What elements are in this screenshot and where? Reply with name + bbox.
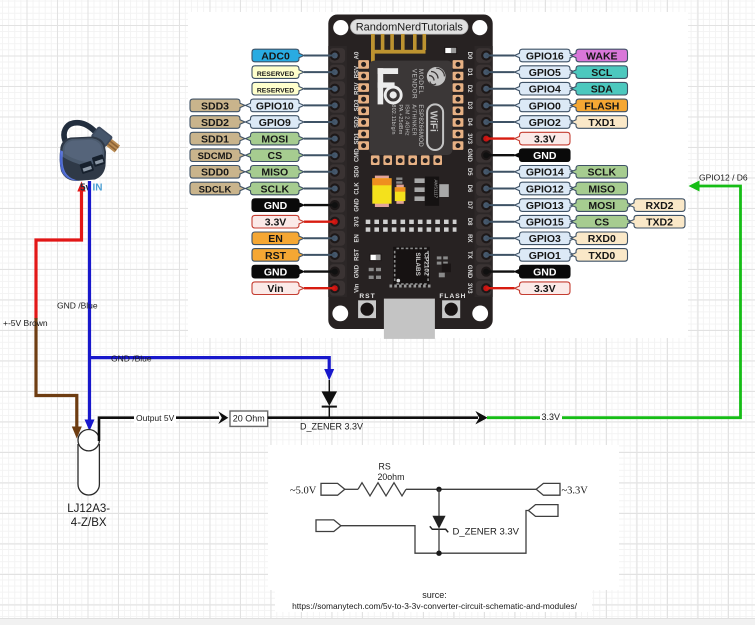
voltage regulator U2 AMS1117 bbox=[415, 178, 449, 201]
arrowhead black into resistor bbox=[218, 411, 228, 424]
svg-text:RS: RS bbox=[379, 462, 391, 472]
svg-text:GPIO4: GPIO4 bbox=[529, 84, 561, 96]
svg-text:IN: IN bbox=[93, 183, 103, 194]
pin label SDD1 bbox=[190, 132, 245, 145]
left header pin row 13 bbox=[330, 248, 345, 263]
blue accent band bbox=[60, 150, 80, 181]
svg-text:+-5V Brown: +-5V Brown bbox=[3, 318, 48, 328]
wire pin row 3 left to board bbox=[304, 88, 335, 90]
svg-text:3V3: 3V3 bbox=[354, 216, 360, 227]
pin label GPIO3 bbox=[515, 232, 576, 245]
pin label Vin bbox=[252, 282, 304, 295]
usb ports bbox=[79, 161, 94, 174]
small pads right of CP2102 bbox=[437, 256, 442, 259]
pin label CS bbox=[571, 215, 633, 228]
mounting hole top-right bbox=[472, 20, 487, 35]
left header pin row 5 bbox=[330, 115, 345, 130]
svg-text:802.11b/g/n: 802.11b/g/n bbox=[390, 104, 396, 134]
svg-text:GPIO15: GPIO15 bbox=[526, 217, 564, 229]
right header pin row 4 bbox=[476, 98, 491, 113]
svg-text:SDD0: SDD0 bbox=[201, 167, 229, 179]
left header pin row 1 bbox=[330, 48, 345, 63]
svg-text:SCLK: SCLK bbox=[261, 183, 290, 195]
mounting hole bottom-right bbox=[472, 306, 488, 322]
pin label MISO bbox=[571, 182, 628, 195]
svg-text:RST: RST bbox=[265, 250, 287, 262]
svg-text:3V3: 3V3 bbox=[466, 283, 472, 294]
pin label SDD2 bbox=[190, 116, 245, 129]
pin label GPIO16 bbox=[515, 49, 576, 62]
small transistor chip bbox=[442, 264, 451, 273]
pin label GPIO2 bbox=[515, 116, 576, 129]
wire pin row 7 left to board bbox=[304, 154, 335, 156]
pin label GPIO0 bbox=[515, 99, 576, 112]
svg-text:surce:: surce: bbox=[422, 590, 447, 600]
NodeMCU board U1 PCB body bbox=[328, 15, 492, 330]
pin label GND bbox=[252, 199, 304, 212]
pin label RXD0 bbox=[571, 232, 628, 245]
svg-text:D6: D6 bbox=[466, 185, 472, 193]
mounting hole bottom-left bbox=[332, 306, 348, 322]
svg-text:20ohm: 20ohm bbox=[378, 472, 405, 482]
right header pin row 6 bbox=[476, 131, 491, 146]
wire pin row 11 left to board bbox=[304, 220, 335, 222]
junction node top bbox=[436, 487, 441, 492]
pin label SDD3 bbox=[190, 99, 245, 112]
arrowhead black at 3.3V node bbox=[475, 411, 487, 424]
svg-text:ADC0: ADC0 bbox=[261, 50, 290, 62]
svg-text:RST: RST bbox=[354, 249, 360, 261]
right header pin row 11 bbox=[476, 214, 491, 229]
right header pin row 1 bbox=[476, 48, 491, 63]
module castellated pads left column bbox=[358, 60, 463, 165]
pin label GPIO9 bbox=[246, 116, 305, 129]
small pads below LED bbox=[369, 256, 448, 279]
Ai-Thinker swirl logo bbox=[427, 67, 446, 86]
svg-text:Vin: Vin bbox=[354, 283, 360, 293]
svg-text:SDD1: SDD1 bbox=[201, 134, 229, 146]
svg-text:GPIO2: GPIO2 bbox=[529, 117, 561, 129]
left header pin row 10 bbox=[330, 198, 345, 213]
arrowhead blue into sensor bbox=[85, 420, 95, 432]
svg-text:GND: GND bbox=[264, 200, 288, 212]
pin label SCLK bbox=[246, 182, 305, 195]
svg-text:SDCLK: SDCLK bbox=[199, 184, 232, 195]
svg-text:D_ZENER 3.3V: D_ZENER 3.3V bbox=[300, 422, 363, 432]
svg-text:EN: EN bbox=[354, 234, 360, 242]
pin label RESERVED bbox=[252, 66, 304, 79]
svg-text:GND: GND bbox=[466, 265, 472, 279]
svg-text:MISO: MISO bbox=[588, 183, 615, 195]
right header pin row 9 bbox=[476, 181, 491, 196]
svg-text:PA +25dBm: PA +25dBm bbox=[397, 104, 403, 134]
wire board to pin row 4 right bbox=[486, 104, 514, 106]
pin label TXD0 bbox=[571, 249, 628, 262]
wire pin row 1 left to board bbox=[304, 55, 335, 57]
pin label MISO bbox=[246, 166, 305, 179]
wire board to pin row 10 right bbox=[486, 204, 514, 206]
right header pin row 3 bbox=[476, 81, 491, 96]
svg-text:GPIO14: GPIO14 bbox=[526, 167, 564, 179]
wire board to pin row 5 right bbox=[486, 121, 514, 123]
svg-text:SCL: SCL bbox=[591, 67, 613, 79]
pin label ADC0 bbox=[252, 49, 304, 62]
output connector ~3.3V bbox=[536, 483, 560, 495]
right header pin row 5 bbox=[476, 115, 491, 130]
wire board to pin row 8 right bbox=[486, 171, 514, 173]
svg-text:GPIO10: GPIO10 bbox=[256, 100, 294, 112]
svg-text:CS: CS bbox=[268, 150, 283, 162]
bottom scrollbar band bbox=[0, 618, 755, 625]
white box behind source url bbox=[275, 586, 592, 612]
svg-text:TXD2: TXD2 bbox=[646, 217, 673, 229]
junction node bottom bbox=[436, 551, 441, 556]
solder pad row 1 bbox=[366, 220, 457, 224]
pin label GPIO15 bbox=[515, 215, 576, 228]
label Output 5V bbox=[134, 412, 176, 423]
pin label GPIO5 bbox=[515, 66, 576, 79]
pin label GPIO10 bbox=[246, 99, 305, 112]
wire pin row 4 left to board bbox=[304, 104, 335, 106]
svg-text:TXD0: TXD0 bbox=[588, 250, 615, 262]
svg-text:FLASH: FLASH bbox=[584, 100, 619, 112]
svg-text:GPIO12: GPIO12 bbox=[526, 183, 564, 195]
svg-text:D1: D1 bbox=[466, 68, 472, 76]
pin label SCL bbox=[571, 66, 628, 79]
left header pin row 11 bbox=[330, 214, 345, 229]
RandomNerdTutorials badge bbox=[351, 20, 469, 35]
SMD LED top right bbox=[445, 47, 457, 53]
svg-text:D4: D4 bbox=[466, 118, 472, 126]
svg-text:GND: GND bbox=[354, 198, 360, 212]
wire Output 5V black bbox=[99, 418, 219, 441]
wire GND blue branch to zener bbox=[90, 358, 330, 371]
wire board to pin row 14 right bbox=[486, 270, 514, 272]
pin label WAKE bbox=[571, 49, 628, 62]
ground-side connector (lower right) bbox=[528, 505, 558, 517]
resistor RS 20ohm zigzag bbox=[358, 483, 406, 496]
pin label MOSI bbox=[246, 132, 305, 145]
svg-text:RXD0: RXD0 bbox=[588, 233, 616, 245]
svg-text:D5: D5 bbox=[466, 168, 472, 176]
capacitor C1 (large yellow) bbox=[375, 176, 389, 180]
left header pin row 2 bbox=[330, 65, 345, 80]
svg-text:ESP8266MOD: ESP8266MOD bbox=[417, 104, 424, 147]
svg-text:GND /Blue: GND /Blue bbox=[57, 301, 98, 311]
svg-text:GND: GND bbox=[264, 267, 288, 279]
pin label GPIO14 bbox=[515, 166, 576, 179]
pin label 3.3V bbox=[515, 282, 571, 295]
ESP8266 module shield bbox=[369, 61, 452, 155]
wire brown -5V segment bbox=[36, 318, 77, 428]
svg-text:GPIO9: GPIO9 bbox=[259, 117, 291, 129]
right header pin row 14 bbox=[476, 264, 491, 279]
wire pin row 2 left to board bbox=[304, 71, 335, 73]
right header pin row 7 bbox=[476, 148, 491, 163]
svg-text:SDD3: SDD3 bbox=[201, 100, 229, 112]
pin label GPIO1 bbox=[515, 249, 576, 262]
wire board to pin row 1 right bbox=[486, 55, 514, 57]
svg-text:D8: D8 bbox=[466, 218, 472, 226]
svg-text:RESERVED: RESERVED bbox=[257, 71, 294, 78]
left header pin row 3 bbox=[330, 81, 345, 96]
svg-text:SDA: SDA bbox=[591, 84, 614, 96]
wire board to pin row 15 right bbox=[486, 287, 514, 289]
svg-text:Output 5V: Output 5V bbox=[136, 413, 175, 423]
wire pin row 12 left to board bbox=[304, 237, 335, 239]
svg-text:~5.0V: ~5.0V bbox=[290, 486, 317, 497]
pin label TXD2 bbox=[629, 215, 685, 228]
svg-text:GPIO5: GPIO5 bbox=[529, 67, 561, 79]
svg-text:RandomNerdTutorials: RandomNerdTutorials bbox=[356, 22, 464, 34]
pin label EN bbox=[252, 232, 304, 245]
svg-text:LJ12A3-: LJ12A3- bbox=[67, 503, 110, 515]
wire board to pin row 13 right bbox=[486, 254, 514, 256]
wire pin row 13 left to board bbox=[304, 254, 335, 256]
wire resistor to 3.3V node bbox=[268, 416, 478, 419]
pin label GND bbox=[252, 265, 304, 278]
pin label RESERVED bbox=[252, 82, 304, 95]
arrowhead 5v IN (red, up) bbox=[77, 182, 85, 192]
left header pin row 14 bbox=[330, 264, 345, 279]
svg-text:https://somanytech.com/5v-to-3: https://somanytech.com/5v-to-3-3v-conver… bbox=[292, 601, 578, 611]
mounting hole top-left bbox=[333, 20, 348, 35]
svg-text:RXD2: RXD2 bbox=[645, 200, 673, 212]
schematic: input connector ~5.0V bbox=[321, 483, 345, 495]
svg-text:20 Ohm: 20 Ohm bbox=[233, 414, 265, 424]
svg-text:TXD1: TXD1 bbox=[588, 117, 615, 129]
left pin header strip bbox=[328, 46, 347, 297]
svg-text:SDCMD: SDCMD bbox=[198, 151, 233, 162]
svg-text:A/THINKER: A/THINKER bbox=[410, 104, 416, 135]
svg-text:~3.3V: ~3.3V bbox=[562, 486, 589, 497]
ground return wire bbox=[341, 511, 529, 554]
LED near CP2102 bbox=[370, 254, 381, 260]
left header pin row 7 bbox=[330, 148, 345, 163]
svg-text:AMS1117: AMS1117 bbox=[434, 180, 439, 199]
white canvas area behind board diagram bbox=[188, 12, 688, 338]
pin label SDCLK bbox=[190, 182, 245, 195]
USB power adapter icon bbox=[60, 123, 122, 181]
pin label TXD1 bbox=[571, 116, 628, 129]
left header pin row 15 bbox=[330, 281, 345, 296]
svg-text:GND: GND bbox=[533, 150, 557, 162]
wire board to pin row 11 right bbox=[486, 221, 514, 223]
svg-text:GPIO3: GPIO3 bbox=[529, 233, 561, 245]
capacitor C2 (small yellow) bbox=[396, 185, 403, 188]
svg-text:SDD2: SDD2 bbox=[201, 117, 229, 129]
WiFi logo badge bbox=[427, 104, 443, 150]
svg-text:Vin: Vin bbox=[267, 283, 283, 295]
proximity sensor LJ12A3 body bbox=[78, 444, 99, 495]
pin label MOSI bbox=[571, 199, 633, 212]
USB-A plug bbox=[90, 126, 121, 154]
pin label GPIO13 bbox=[515, 199, 576, 212]
wire connector to resistor RS bbox=[345, 488, 358, 490]
ground-side connector (lower left) bbox=[316, 520, 341, 532]
svg-text:CS: CS bbox=[595, 217, 610, 229]
wire resistor to output connector bbox=[406, 488, 536, 490]
svg-text:GPIO13: GPIO13 bbox=[526, 200, 564, 212]
FCC logo on module bbox=[378, 68, 399, 104]
pin label CS bbox=[246, 149, 305, 162]
adapter body bbox=[60, 137, 106, 182]
pin label RXD2 bbox=[629, 199, 685, 212]
wire pin row 6 left to board bbox=[304, 138, 335, 140]
zener diode D_ZENER 3.3V (schematic) bbox=[438, 489, 440, 516]
svg-text:MOSI: MOSI bbox=[588, 200, 615, 212]
wire board to pin row 12 right bbox=[486, 237, 514, 239]
svg-text:FLASH: FLASH bbox=[439, 293, 466, 300]
wire board to pin row 7 right bbox=[486, 154, 514, 156]
svg-text:D3: D3 bbox=[466, 102, 472, 110]
right header pin row 13 bbox=[476, 248, 491, 263]
pin label SCLK bbox=[571, 166, 628, 179]
proximity sensor LJ12A3 head bbox=[78, 430, 99, 451]
pin label GND bbox=[515, 265, 571, 278]
pin label SDD0 bbox=[190, 166, 245, 179]
arrowhead blue into zener bbox=[324, 369, 334, 381]
right header pin row 2 bbox=[476, 65, 491, 80]
wire board to pin row 9 right bbox=[486, 188, 514, 190]
svg-text:GND: GND bbox=[533, 267, 557, 279]
wire pin row 9 left to board bbox=[304, 188, 335, 190]
right header pin row 8 bbox=[476, 164, 491, 179]
pin label FLASH bbox=[571, 99, 628, 112]
svg-text:WiFi: WiFi bbox=[427, 111, 438, 132]
zener diode D1 bbox=[328, 380, 330, 392]
svg-text:VENDOR: VENDOR bbox=[410, 69, 417, 99]
micro USB connector bbox=[390, 285, 432, 288]
pin label GPIO12 bbox=[515, 182, 576, 195]
svg-text:3.3V: 3.3V bbox=[534, 134, 556, 146]
pin label GPIO4 bbox=[515, 82, 576, 95]
svg-text:GPIO1: GPIO1 bbox=[529, 250, 561, 262]
svg-text:3V3: 3V3 bbox=[466, 133, 472, 144]
cable bbox=[64, 123, 95, 141]
svg-text:MISO: MISO bbox=[261, 167, 288, 179]
svg-text:3.3V: 3.3V bbox=[534, 283, 556, 295]
wire +5V red from USB bbox=[36, 189, 82, 319]
svg-text:WAKE: WAKE bbox=[586, 50, 618, 62]
wire pin row 14 left to board bbox=[304, 270, 335, 272]
svg-text:SD0: SD0 bbox=[354, 165, 360, 177]
svg-text:3.3V: 3.3V bbox=[542, 412, 561, 422]
small pads near C1 bbox=[396, 178, 402, 180]
svg-text:D_ZENER 3.3V: D_ZENER 3.3V bbox=[453, 527, 520, 538]
PCB wifi antenna traces bbox=[371, 34, 426, 62]
wire green 3.3V to GPIO12 bbox=[487, 416, 540, 419]
svg-text:4-Z/BX: 4-Z/BX bbox=[71, 517, 107, 529]
wire GND blue vertical from USB to sensor bbox=[88, 181, 91, 421]
wire board to pin row 6 right bbox=[486, 137, 514, 139]
pin label RST bbox=[252, 249, 304, 262]
svg-text:GPIO16: GPIO16 bbox=[526, 50, 564, 62]
svg-text:3.3V: 3.3V bbox=[265, 217, 287, 229]
svg-text:RX: RX bbox=[466, 234, 472, 242]
arrowhead green at GPIO12 bbox=[689, 181, 700, 192]
pin label SDCMD bbox=[190, 149, 245, 162]
pin label GND bbox=[515, 149, 571, 162]
svg-text:GPIO12 / D6: GPIO12 / D6 bbox=[699, 173, 748, 183]
left header pin row 12 bbox=[330, 231, 345, 246]
svg-text:A0: A0 bbox=[354, 51, 360, 59]
arrowhead brown into sensor bbox=[72, 427, 82, 439]
solder pad row 2 bbox=[366, 227, 457, 231]
right pin header strip bbox=[474, 46, 492, 297]
svg-text:GPIO0: GPIO0 bbox=[529, 100, 561, 112]
wire pin row 15 left to board bbox=[304, 287, 335, 289]
white canvas area behind converter schematic bbox=[268, 445, 619, 590]
svg-text:D7: D7 bbox=[466, 201, 472, 209]
svg-text:CLK: CLK bbox=[354, 182, 360, 195]
left header pin row 4 bbox=[330, 98, 345, 113]
svg-text:MOSI: MOSI bbox=[261, 134, 288, 146]
svg-text:GND: GND bbox=[354, 264, 360, 278]
svg-text:TX: TX bbox=[466, 251, 472, 259]
svg-text:RST: RST bbox=[359, 293, 375, 300]
svg-text:D2: D2 bbox=[466, 85, 472, 93]
svg-text:SCLK: SCLK bbox=[588, 167, 617, 179]
svg-text:RESERVED: RESERVED bbox=[257, 88, 294, 95]
svg-text:GND: GND bbox=[466, 149, 472, 163]
left header pin row 8 bbox=[330, 164, 345, 179]
wire board to pin row 3 right bbox=[486, 88, 514, 90]
right header pin row 15 bbox=[476, 281, 491, 296]
wire pin row 5 left to board bbox=[304, 121, 335, 123]
pin label SDA bbox=[571, 82, 628, 95]
resistor R1 20 Ohm box bbox=[230, 411, 268, 426]
wire board to pin row 2 right bbox=[486, 71, 514, 73]
svg-text:CP2102: CP2102 bbox=[423, 252, 430, 276]
pin label 3.3V bbox=[252, 215, 304, 228]
wire pin row 8 left to board bbox=[304, 171, 335, 173]
right header pin row 10 bbox=[476, 198, 491, 213]
svg-text:SILABS: SILABS bbox=[414, 252, 421, 276]
svg-text:ISM 2.4GHz: ISM 2.4GHz bbox=[404, 104, 410, 135]
svg-text:D0: D0 bbox=[466, 52, 472, 60]
svg-text:GND /Blue: GND /Blue bbox=[111, 353, 152, 363]
svg-text:EN: EN bbox=[268, 233, 283, 245]
left header pin row 6 bbox=[330, 131, 345, 146]
pin label 3.3V bbox=[515, 132, 571, 145]
right header pin row 12 bbox=[476, 231, 491, 246]
USB-serial chip U3 CP2102 bbox=[393, 247, 430, 287]
wire pin row 10 left to board bbox=[304, 204, 335, 206]
left header pin row 9 bbox=[330, 181, 345, 196]
